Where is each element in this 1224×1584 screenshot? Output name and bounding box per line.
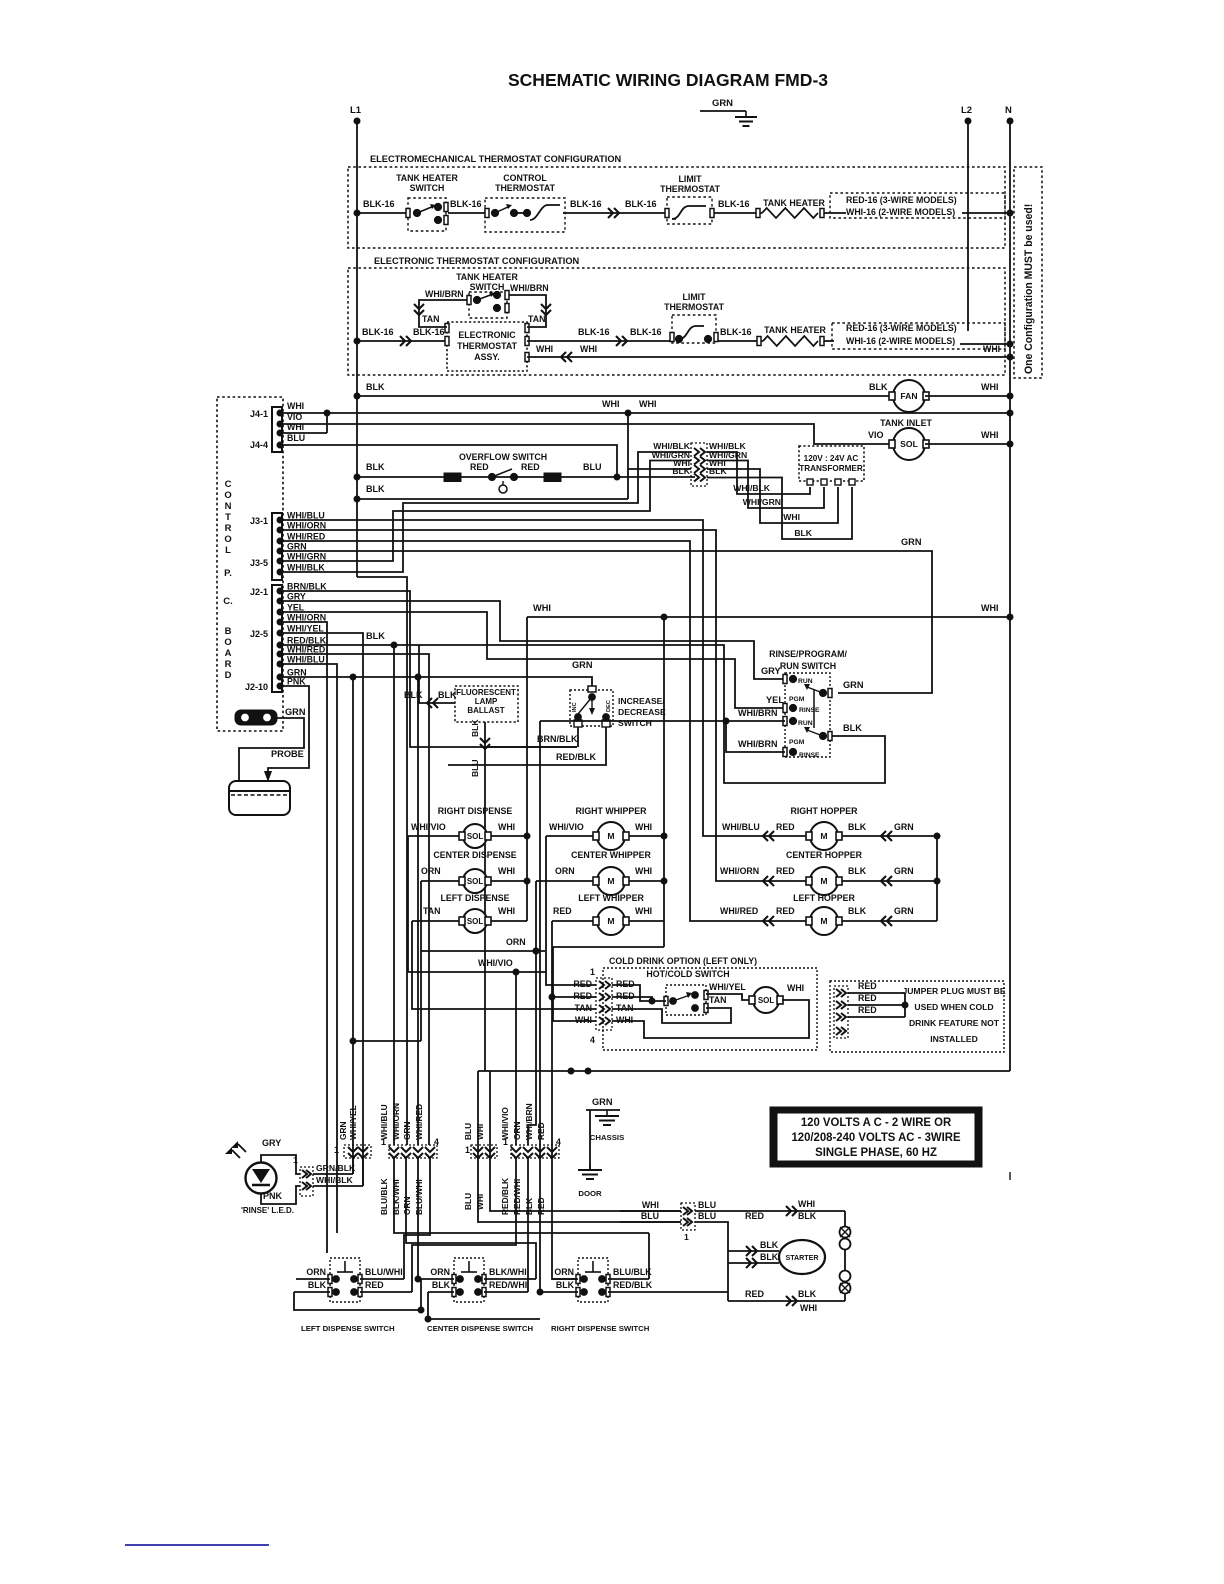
svg-text:One Configuration MUST be used: One Configuration MUST be used!: [1023, 204, 1035, 374]
wire ORN riser to bundle4: [528, 951, 536, 1145]
svg-text:THERMOSTAT: THERMOSTAT: [664, 302, 725, 312]
control thermostat: [485, 173, 565, 232]
wire WHI fan to N: [925, 395, 1010, 397]
connector bundle4: [511, 1145, 559, 1158]
wire BLK-16 to tank heater: [714, 212, 762, 214]
svg-text:1: 1: [590, 967, 595, 977]
svg-text:WHI: WHI: [800, 1303, 817, 1313]
svg-text:FLUORESCENT: FLUORESCENT: [456, 688, 516, 697]
svg-text:'RINSE' L.E.D.: 'RINSE' L.E.D.: [241, 1206, 294, 1215]
labels bundle3 top: [463, 1123, 485, 1155]
wire WHI/YEL switch to sol: [706, 994, 750, 1000]
wire WHI/ORN J3 to center hopper: [283, 530, 760, 881]
svg-text:VIO: VIO: [868, 430, 884, 440]
svg-text:PNK: PNK: [287, 677, 306, 687]
svg-text:RUN: RUN: [798, 678, 813, 685]
svg-text:DEC: DEC: [606, 700, 612, 712]
svg-text:WHI/VIO: WHI/VIO: [411, 822, 446, 832]
svg-text:WHI: WHI: [498, 866, 515, 876]
svg-text:RED-16 (3-WIRE MODELS): RED-16 (3-WIRE MODELS): [846, 323, 957, 333]
svg-text:BLU: BLU: [287, 433, 305, 443]
wire bundle3 lower risers: [478, 1158, 681, 1222]
svg-text:ORN: ORN: [555, 866, 575, 876]
control PC board box: [217, 397, 283, 731]
svg-text:WHI/ORN: WHI/ORN: [287, 613, 326, 623]
wire BLU second row down: [695, 1222, 728, 1301]
svg-text:TRANSFORMER: TRANSFORMER: [799, 464, 863, 473]
wire center switch orn: [418, 1278, 454, 1280]
wire GRY J2 to rinse switch: [283, 601, 785, 679]
svg-text:BLU/WHI: BLU/WHI: [365, 1267, 403, 1277]
connector cold drink 4-pin: [590, 967, 612, 1045]
svg-text:WHI/YEL: WHI/YEL: [287, 624, 324, 634]
svg-text:OVERFLOW SWITCH: OVERFLOW SWITCH: [459, 452, 547, 462]
svg-text:RINSE: RINSE: [799, 752, 820, 759]
wire center orn bus link: [420, 1279, 422, 1310]
resistor tank heater electronic: [763, 336, 818, 346]
svg-text:CHASSIS: CHASSIS: [590, 1133, 625, 1142]
wire starter bottom row: [728, 1300, 845, 1302]
svg-text:BLU: BLU: [463, 1123, 473, 1140]
wire WHI right to transformer t3: [707, 469, 838, 523]
svg-text:PGM: PGM: [789, 739, 805, 746]
wire WHI/BLK right to transformer t1: [707, 452, 810, 494]
wire WHI/BLU J3 to right hopper: [283, 520, 760, 836]
svg-text:ORN: ORN: [306, 1267, 326, 1277]
svg-text:RED-16 (3-WIRE MODELS): RED-16 (3-WIRE MODELS): [846, 195, 957, 205]
wire WHI/BRN left with TAN drop: [419, 300, 467, 327]
svg-text:L2: L2: [961, 105, 972, 116]
wire left switch orn: [296, 1278, 330, 1280]
svg-text:HOT/COLD SWITCH: HOT/COLD SWITCH: [646, 969, 729, 979]
svg-text:TAN: TAN: [709, 995, 726, 1005]
svg-text:GRN: GRN: [894, 866, 914, 876]
wire WHI J4-3: [283, 432, 327, 434]
svg-text:ELECTROMECHANICAL THERMOSTAT C: ELECTROMECHANICAL THERMOSTAT CONFIGURATI…: [370, 154, 622, 164]
svg-text:BLU/BLK: BLU/BLK: [613, 1267, 652, 1277]
svg-text:CENTER DISPENSE SWITCH: CENTER DISPENSE SWITCH: [427, 1324, 534, 1333]
svg-text:CENTER WHIPPER: CENTER WHIPPER: [571, 850, 651, 860]
labels bundle2 top: [379, 1103, 439, 1147]
svg-text:RIGHT DISPENSE: RIGHT DISPENSE: [438, 806, 513, 816]
svg-text:WHI: WHI: [616, 1015, 633, 1025]
electromechanical thermostat configuration box: [348, 154, 1005, 248]
wire WHI riser bundle3: [489, 1071, 491, 1158]
svg-text:1: 1: [684, 1232, 689, 1242]
wire L1 to bundle riser: [357, 577, 407, 1145]
svg-text:WHI/RED: WHI/RED: [287, 645, 325, 655]
svg-text:SCHEMATIC WIRING DIAGRAM FMD-: SCHEMATIC WIRING DIAGRAM FMD-3: [508, 70, 828, 90]
resistor tank heater electromech: [762, 208, 818, 218]
connector J2: [245, 585, 283, 692]
wire RED/BLK dec pin: [448, 727, 606, 765]
svg-text:J3-5: J3-5: [250, 558, 268, 568]
svg-text:LEFT DISPENSE: LEFT DISPENSE: [440, 893, 509, 903]
svg-text:WHI: WHI: [787, 983, 804, 993]
svg-text:WHI/ORN: WHI/ORN: [720, 866, 759, 876]
footer line: [125, 1544, 269, 1546]
wire WHI row to connector: [620, 1210, 681, 1212]
svg-text:WHI: WHI: [639, 399, 657, 409]
svg-text:BLK: BLK: [366, 484, 385, 494]
wire center switch right pins: [484, 1278, 536, 1280]
svg-text:INCREASE/: INCREASE/: [618, 696, 665, 706]
svg-text:RINSE/PROGRAM/: RINSE/PROGRAM/: [769, 649, 847, 659]
switch right dispense: [551, 1258, 653, 1333]
svg-text:SOL: SOL: [467, 877, 484, 886]
wire bundle2 lower risers: [394, 1158, 649, 1233]
svg-text:TAN: TAN: [528, 314, 545, 324]
wire GRN bus J3: [283, 551, 932, 693]
svg-text:SWITCH: SWITCH: [470, 282, 505, 292]
svg-text:WHI: WHI: [575, 1015, 592, 1025]
wire L2 rail: [967, 121, 969, 331]
svg-text:RED/BLK: RED/BLK: [500, 1178, 510, 1215]
motor FAN: [889, 380, 929, 412]
wire WHI bottom bus: [478, 1070, 1010, 1072]
connector WHI-BLU 2pin: [641, 1200, 716, 1242]
switch center dispense: [427, 1258, 534, 1333]
svg-text:D: D: [225, 670, 232, 681]
svg-text:WHI/BRN: WHI/BRN: [510, 283, 549, 293]
wire BLK-16: [448, 212, 487, 214]
svg-text:USED WHEN COLD: USED WHEN COLD: [914, 1002, 993, 1012]
wire WHI sol return: [612, 1000, 809, 1038]
svg-text:WHI-16 (2-WIRE MODELS): WHI-16 (2-WIRE MODELS): [846, 207, 955, 217]
svg-text:TANK HEATER: TANK HEATER: [396, 173, 458, 183]
svg-text:WHI/GRN: WHI/GRN: [743, 497, 781, 507]
svg-text:WHI: WHI: [981, 430, 999, 440]
svg-text:BLK: BLK: [798, 1289, 817, 1299]
svg-text:M: M: [820, 916, 827, 926]
wire GRN branch bundle1: [352, 677, 354, 1174]
wire GRY led: [261, 1155, 300, 1174]
svg-text:ORN: ORN: [506, 937, 526, 947]
svg-text:BLK: BLK: [760, 1240, 779, 1250]
svg-text:C: C: [225, 479, 232, 490]
connector J4: [250, 407, 283, 452]
svg-text:WHI: WHI: [580, 344, 597, 354]
svg-text:WHI: WHI: [536, 344, 553, 354]
svg-text:WHI: WHI: [498, 906, 515, 916]
svg-text:RED: RED: [616, 979, 635, 989]
wire right switch red/blk: [608, 1291, 728, 1293]
svg-text:JUMPER PLUG MUST BE: JUMPER PLUG MUST BE: [902, 986, 1005, 996]
svg-text:BLK: BLK: [556, 1280, 575, 1290]
switch left dispense: [301, 1258, 403, 1333]
wire BLK-16 electronic to limit: [527, 340, 672, 342]
wire GRN/BLK led: [313, 1173, 353, 1175]
svg-text:WHI/BLK: WHI/BLK: [733, 483, 771, 493]
svg-text:YEL: YEL: [287, 603, 305, 613]
wire WHI/GRN right to transformer t2: [707, 461, 824, 509]
svg-text:O: O: [224, 490, 231, 501]
svg-text:BLK: BLK: [308, 1280, 327, 1290]
svg-text:BLK: BLK: [848, 822, 867, 832]
svg-text:ORN: ORN: [430, 1267, 450, 1277]
svg-text:BLK-16: BLK-16: [362, 327, 394, 337]
svg-text:WHI: WHI: [983, 344, 1000, 354]
svg-text:DECREASE: DECREASE: [618, 707, 666, 717]
svg-text:BLK-16: BLK-16: [625, 199, 657, 209]
labels bundle4 bottom: [500, 1178, 546, 1215]
svg-text:WHI/BRN: WHI/BRN: [738, 739, 778, 749]
wire BLK-16 to tank heater electronic: [718, 340, 763, 342]
svg-text:BLK: BLK: [524, 1198, 534, 1215]
wire WHI J4-1 to N: [283, 412, 1010, 414]
wire WHI/GRN left leg: [283, 461, 691, 562]
svg-text:ORN: ORN: [402, 1196, 412, 1215]
transformer 120V:24V: [799, 446, 864, 485]
cold drink option box: [603, 956, 817, 1050]
wire right switch blu/blk: [608, 1278, 649, 1280]
svg-text:GRN/BLK: GRN/BLK: [316, 1163, 356, 1173]
wire right switch blk: [540, 1291, 578, 1293]
svg-text:4: 4: [590, 1035, 595, 1045]
connector J3: [250, 513, 283, 580]
wire GRN J2 to inc/dec top: [283, 677, 592, 688]
svg-text:WHI: WHI: [287, 401, 304, 411]
svg-text:BLU: BLU: [463, 1193, 473, 1210]
wire BLU top row to starter right: [695, 1210, 845, 1212]
wire BRN/BLK row to ballast drop: [485, 746, 577, 748]
svg-text:THERMOSTAT: THERMOSTAT: [495, 183, 556, 193]
svg-text:RIGHT WHIPPER: RIGHT WHIPPER: [576, 806, 648, 816]
svg-text:THERMOSTAT: THERMOSTAT: [660, 184, 721, 194]
svg-text:ELECTRONIC THERMOSTAT CONFIGUR: ELECTRONIC THERMOSTAT CONFIGURATION: [374, 256, 580, 266]
svg-text:GRN: GRN: [572, 660, 593, 670]
svg-text:SOL: SOL: [758, 996, 775, 1005]
svg-text:TAN: TAN: [575, 1003, 592, 1013]
svg-text:RED/WHI: RED/WHI: [489, 1280, 527, 1290]
svg-text:WHI/YEL: WHI/YEL: [709, 982, 746, 992]
svg-text:GRN: GRN: [338, 1121, 348, 1140]
wire BRN/BLK J2 to inc/dec switch: [283, 591, 577, 747]
svg-text:RED: RED: [858, 981, 877, 991]
wire RED2 row: [552, 996, 596, 998]
svg-text:BLK: BLK: [366, 462, 385, 472]
svg-text:RED: RED: [536, 1122, 546, 1140]
svg-text:PROBE: PROBE: [271, 749, 304, 759]
svg-text:BLK-16: BLK-16: [570, 199, 602, 209]
tick mark: [1009, 1172, 1011, 1180]
wire BLK to fan: [357, 395, 893, 397]
labels J3 rows: [287, 511, 326, 573]
svg-text:PGM: PGM: [789, 696, 805, 703]
ground GRN top: [700, 98, 757, 126]
svg-text:BLU: BLU: [698, 1200, 716, 1210]
wire WHI/VIO riser bundle4: [515, 972, 517, 1145]
wire RED left whipper riser: [551, 921, 553, 1158]
terminal GRN: [235, 707, 306, 725]
wire BLK to ballast: [419, 645, 455, 703]
wire BLK/BLU ballast down: [484, 722, 486, 770]
rinse/program/run switch: [769, 649, 847, 759]
wire BLK row 2: [357, 498, 628, 500]
svg-text:BRN/BLK: BRN/BLK: [537, 734, 578, 744]
svg-text:BLK/WHI: BLK/WHI: [489, 1267, 527, 1277]
wire WHI sol to N: [925, 443, 1010, 445]
svg-text:GRN: GRN: [287, 542, 307, 552]
svg-text:DRINK FEATURE NOT: DRINK FEATURE NOT: [909, 1018, 1000, 1028]
svg-text:WHI: WHI: [533, 603, 551, 613]
svg-text:RED: RED: [858, 1005, 877, 1015]
svg-text:120V : 24V AC: 120V : 24V AC: [804, 454, 859, 463]
svg-text:L: L: [225, 545, 231, 556]
wire WHI/BRN riser: [539, 721, 541, 1292]
svg-text:BLK-16: BLK-16: [578, 327, 610, 337]
svg-text:WHI: WHI: [642, 1200, 659, 1210]
svg-text:INC: INC: [572, 702, 578, 712]
svg-text:BLK: BLK: [366, 382, 385, 392]
ground door: [578, 1164, 602, 1198]
svg-text:BLK-16: BLK-16: [720, 327, 752, 337]
svg-text:GRN: GRN: [712, 98, 733, 109]
wire BLK overflow row: [357, 476, 695, 478]
svg-text:WHI/VIO: WHI/VIO: [478, 958, 513, 968]
svg-text:RINSE: RINSE: [799, 707, 820, 714]
increase/decrease switch: [570, 686, 666, 728]
svg-text:ORN: ORN: [554, 1267, 574, 1277]
svg-text:WHI/BLU: WHI/BLU: [287, 655, 325, 665]
svg-text:RED: RED: [365, 1280, 384, 1290]
svg-text:RED: RED: [521, 462, 540, 472]
wire bundle4 lower risers: [412, 1158, 516, 1292]
LED rinse D1: [225, 1138, 294, 1215]
wire WHI/VIO right whipper to cold drink: [546, 836, 596, 985]
svg-text:B: B: [225, 626, 232, 637]
svg-text:WHI/BRN: WHI/BRN: [524, 1103, 534, 1140]
wire BLK-16 electromech row: [357, 212, 406, 214]
svg-text:WHI/BRN: WHI/BRN: [738, 708, 778, 718]
note voltage box: [770, 1107, 982, 1167]
svg-text:L1: L1: [350, 105, 361, 116]
svg-text:WHI: WHI: [602, 399, 620, 409]
wire left switch red: [360, 1291, 412, 1293]
svg-text:RIGHT DISPENSE SWITCH: RIGHT DISPENSE SWITCH: [551, 1324, 650, 1333]
svg-text:P.: P.: [224, 568, 232, 579]
tank heater switch electronic SW2: [456, 272, 518, 318]
svg-text:BALLAST: BALLAST: [467, 706, 504, 715]
svg-text:WHI-16 (2-WIRE MODELS): WHI-16 (2-WIRE MODELS): [846, 336, 955, 346]
wire WHI/BRN to rinse: [540, 720, 785, 722]
connector bundle3: [471, 1145, 497, 1158]
wire WHI/BRN right with TAN drop: [509, 295, 546, 327]
svg-text:BLU: BLU: [583, 462, 602, 472]
labels bundle right: [709, 441, 747, 476]
wire BLU/BLK riser: [393, 645, 395, 1145]
labels bundle4 top: [500, 1103, 561, 1147]
wire to door ground: [589, 1110, 591, 1170]
ground chassis: [586, 1097, 624, 1142]
svg-text:M: M: [820, 876, 827, 886]
svg-text:TANK HEATER: TANK HEATER: [763, 198, 825, 208]
wire WHI bus mid: [527, 616, 1010, 618]
electronic thermostat configuration box: [348, 256, 1005, 375]
svg-text:BLK: BLK: [869, 382, 888, 392]
wire BLU J4-4 overflow return: [283, 445, 617, 477]
labels bundle2 bottom: [379, 1178, 424, 1215]
wire ORN center whipper down: [535, 881, 537, 951]
wire bundle1 lower risers: [352, 1158, 354, 1174]
svg-text:O: O: [224, 637, 231, 648]
wire WHI/RED J2 to bundle2: [283, 654, 429, 1145]
svg-text:J2-5: J2-5: [250, 629, 268, 639]
svg-text:WHI: WHI: [783, 512, 800, 522]
wire starter right vertical: [844, 1211, 846, 1301]
svg-text:BLK-16: BLK-16: [718, 199, 750, 209]
svg-text:M: M: [820, 831, 827, 841]
svg-text:A: A: [225, 648, 232, 659]
svg-text:N: N: [1005, 105, 1012, 116]
svg-text:BLK: BLK: [848, 906, 867, 916]
svg-text:WHI: WHI: [635, 906, 652, 916]
wire WHI return electronic: [527, 356, 1010, 358]
wire BLU riser bundle3: [477, 1071, 479, 1158]
svg-text:ASSY.: ASSY.: [474, 352, 499, 362]
svg-text:WHI/ORN: WHI/ORN: [391, 1103, 401, 1140]
svg-text:GRN: GRN: [894, 822, 914, 832]
svg-text:WHI/BLK: WHI/BLK: [316, 1175, 354, 1185]
svg-text:M: M: [607, 831, 614, 841]
svg-text:YEL: YEL: [766, 695, 784, 705]
svg-text:RED: RED: [745, 1211, 765, 1221]
electronic thermostat assy U1: [445, 322, 529, 371]
svg-text:CENTER HOPPER: CENTER HOPPER: [786, 850, 863, 860]
svg-text:GRN: GRN: [894, 906, 914, 916]
svg-text:N: N: [225, 501, 232, 512]
svg-text:RED: RED: [858, 993, 877, 1003]
svg-text:LEFT DISPENSE SWITCH: LEFT DISPENSE SWITCH: [301, 1324, 395, 1333]
svg-text:TAN: TAN: [422, 314, 439, 324]
connector bundle2: [389, 1145, 437, 1158]
svg-text:BLU: BLU: [698, 1211, 716, 1221]
svg-text:LEFT WHIPPER: LEFT WHIPPER: [578, 893, 644, 903]
svg-text:M: M: [607, 876, 614, 886]
svg-text:RED: RED: [553, 906, 572, 916]
svg-text:BLK: BLK: [432, 1280, 451, 1290]
svg-text:SOL: SOL: [900, 439, 918, 449]
svg-text:COLD DRINK OPTION (LEFT ONLY): COLD DRINK OPTION (LEFT ONLY): [609, 956, 757, 966]
svg-text:BLK: BLK: [798, 1211, 817, 1221]
wire WHI/BRN rinse branch: [726, 721, 785, 752]
svg-text:J2-10: J2-10: [245, 682, 268, 692]
wire WHI/VIO right dispense: [408, 836, 440, 972]
svg-text:120 VOLTS A C - 2 WIRE OR: 120 VOLTS A C - 2 WIRE OR: [801, 1116, 952, 1129]
svg-text:STARTER: STARTER: [785, 1254, 818, 1262]
svg-text:J3-1: J3-1: [250, 516, 268, 526]
svg-text:GRY: GRY: [287, 592, 306, 602]
svg-text:BLK/WHI: BLK/WHI: [391, 1179, 401, 1215]
svg-text:J4-1: J4-1: [250, 409, 268, 419]
fluorescent lamp ballast: [455, 686, 518, 722]
svg-text:BLK-16: BLK-16: [450, 199, 482, 209]
svg-text:BLU: BLU: [470, 759, 480, 777]
starter motor: [779, 1240, 825, 1274]
wire RED/BLK J2 BLK bus to rinse switch: [283, 645, 885, 783]
wire WHI/BLU J2 down: [283, 664, 337, 1233]
svg-text:VIO: VIO: [287, 412, 302, 422]
connector bundle 4-wire: [691, 443, 707, 486]
svg-text:GRY: GRY: [262, 1138, 281, 1148]
svg-text:WHI/BLU: WHI/BLU: [287, 511, 325, 521]
svg-text:PNK: PNK: [263, 1191, 283, 1201]
svg-text:WHI/BLU: WHI/BLU: [379, 1104, 389, 1140]
wire center switch blk: [428, 1292, 540, 1319]
wire L1 rail: [356, 121, 358, 577]
svg-text:RED: RED: [573, 991, 592, 1001]
svg-text:RED: RED: [745, 1289, 765, 1299]
